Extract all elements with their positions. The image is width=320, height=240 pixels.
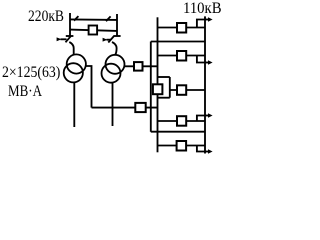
feeder 1 (top) [158, 27, 206, 29]
wire T1 feeder to bus [92, 107, 158, 109]
feeder 5 (bottom) [158, 145, 206, 147]
breaker on T1 feeder [135, 103, 145, 112]
breaker on T2 tap [134, 62, 143, 71]
breaker feeder 2 [177, 51, 186, 61]
tick right line terminal [113, 35, 120, 37]
wire jog into left transformer [69, 42, 73, 55]
wire right entry vertical [116, 14, 118, 36]
wire left entry vertical [69, 13, 71, 36]
wire T2 side tap [124, 65, 134, 67]
bypass loop around bus breaker top [158, 76, 170, 78]
line arrow left (to system) [61, 38, 67, 40]
bus continues below sectional breaker [157, 94, 159, 152]
disconnector slash left on top line [74, 16, 78, 21]
feeder 4 [158, 120, 206, 122]
wire T2 tap to bus [143, 65, 158, 67]
label 2x125(63) [2, 64, 60, 82]
feeder 5 jog box [197, 146, 205, 152]
outgoing line arrow 4 [205, 151, 209, 153]
breaker feeder 4 [177, 116, 186, 126]
breaker feeder 5 [177, 141, 187, 151]
label 220kV [28, 8, 64, 26]
tick left line terminal [66, 35, 74, 37]
outgoing line arrow 3 [205, 115, 209, 117]
feeder 2 jog box [197, 56, 205, 63]
outgoing line arrow 1 [205, 19, 209, 21]
disconnector blade right entry [108, 36, 114, 42]
sectional breaker on bus [153, 84, 163, 94]
bypass loop bottom [158, 97, 170, 99]
label MV-A [8, 83, 42, 101]
wire T2 bottom stub [112, 83, 114, 126]
outgoing line arrow 2 [205, 62, 209, 64]
wire bridge line with breaker [70, 30, 117, 31]
line arrow right (to system) [107, 39, 111, 41]
wire jog into right transformer [112, 42, 117, 55]
rung plain lower [151, 131, 205, 133]
transformer T2 upper winding [106, 55, 125, 74]
transformer T2 lower winding [102, 64, 121, 83]
disconnector blade left entry [66, 36, 71, 42]
feeder 3 (middle, from bypass loop) [170, 89, 205, 91]
rung plain upper [151, 41, 205, 43]
transformer T1 lower winding [64, 63, 83, 82]
feeder 4 jog box [197, 116, 205, 122]
label 110kV [183, 0, 222, 18]
bus 110kV vertical [157, 17, 159, 84]
breaker Q (bridge square) [89, 26, 98, 35]
disconnector slash right on top line [106, 16, 111, 21]
breaker feeder 1 [177, 23, 186, 33]
feeder 1 jog box [197, 20, 205, 28]
wire T1 bottom stub [73, 82, 75, 127]
bypass bus trunk vertical [204, 16, 206, 153]
wire T1 side tap to down lead [86, 66, 92, 108]
breaker feeder 3 [177, 85, 186, 95]
bypass vertical V2 [150, 42, 152, 132]
bypass loop vertical [169, 77, 171, 98]
transformer T1 upper winding [67, 54, 86, 73]
feeder 2 [158, 55, 206, 57]
wire repair-bridge top line [70, 18, 117, 21]
